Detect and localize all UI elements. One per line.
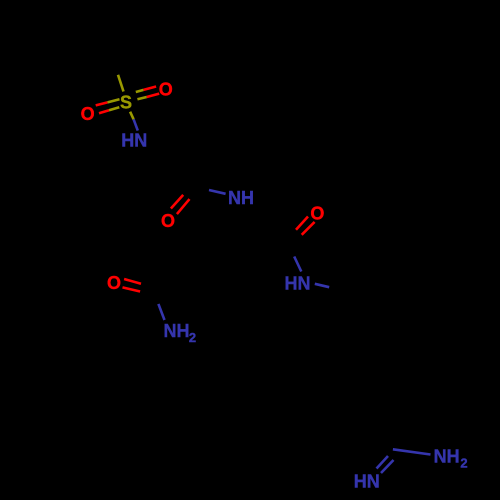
svg-text:NH: NH xyxy=(228,188,254,208)
svg-text:NH: NH xyxy=(434,447,460,467)
svg-text:O: O xyxy=(161,211,175,231)
bond S=O right, line 2 xyxy=(137,97,146,99)
bond CH3-S (S half) xyxy=(118,75,124,92)
svg-text:2: 2 xyxy=(460,456,467,471)
bond C-NH2 amidine xyxy=(393,449,431,454)
bond C=O amide 1, line 1 xyxy=(171,195,183,209)
svg-text:O: O xyxy=(159,80,173,100)
bond C=O amide 2, line 1 xyxy=(296,217,308,230)
bond C=O amide 2, line 2 xyxy=(302,222,315,235)
svg-text:O: O xyxy=(81,104,95,124)
svg-text:2: 2 xyxy=(189,330,196,345)
bond C=O amide 3, line 2 xyxy=(123,287,141,291)
svg-text:NH: NH xyxy=(164,321,190,341)
svg-text:S: S xyxy=(120,92,132,112)
bond C-NH2 amide 3 (N half) xyxy=(158,304,164,320)
svg-text:HN: HN xyxy=(354,472,380,492)
bond C-N amide 1 (N half) xyxy=(209,190,226,194)
svg-text:O: O xyxy=(107,273,121,293)
bond S=O left, line 1 xyxy=(96,102,108,105)
bond C=N amidine, line 1 xyxy=(377,456,389,469)
svg-text:O: O xyxy=(310,204,324,224)
bond S=O left, line 2 xyxy=(99,110,109,113)
bond C-N amide 2 (N half) xyxy=(294,257,301,272)
bond C=N amidine, line 2 xyxy=(381,460,394,473)
svg-text:HN: HN xyxy=(121,131,147,151)
bond S-N (sulfonamide) xyxy=(130,112,134,120)
bond N-CH2 (N half) xyxy=(315,284,329,287)
bond C=O amide 3, line 1 xyxy=(124,279,141,284)
bond C=O amide 1, line 2 xyxy=(177,199,190,214)
svg-text:HN: HN xyxy=(285,274,311,294)
bond S=O right, line 1 xyxy=(136,90,144,92)
